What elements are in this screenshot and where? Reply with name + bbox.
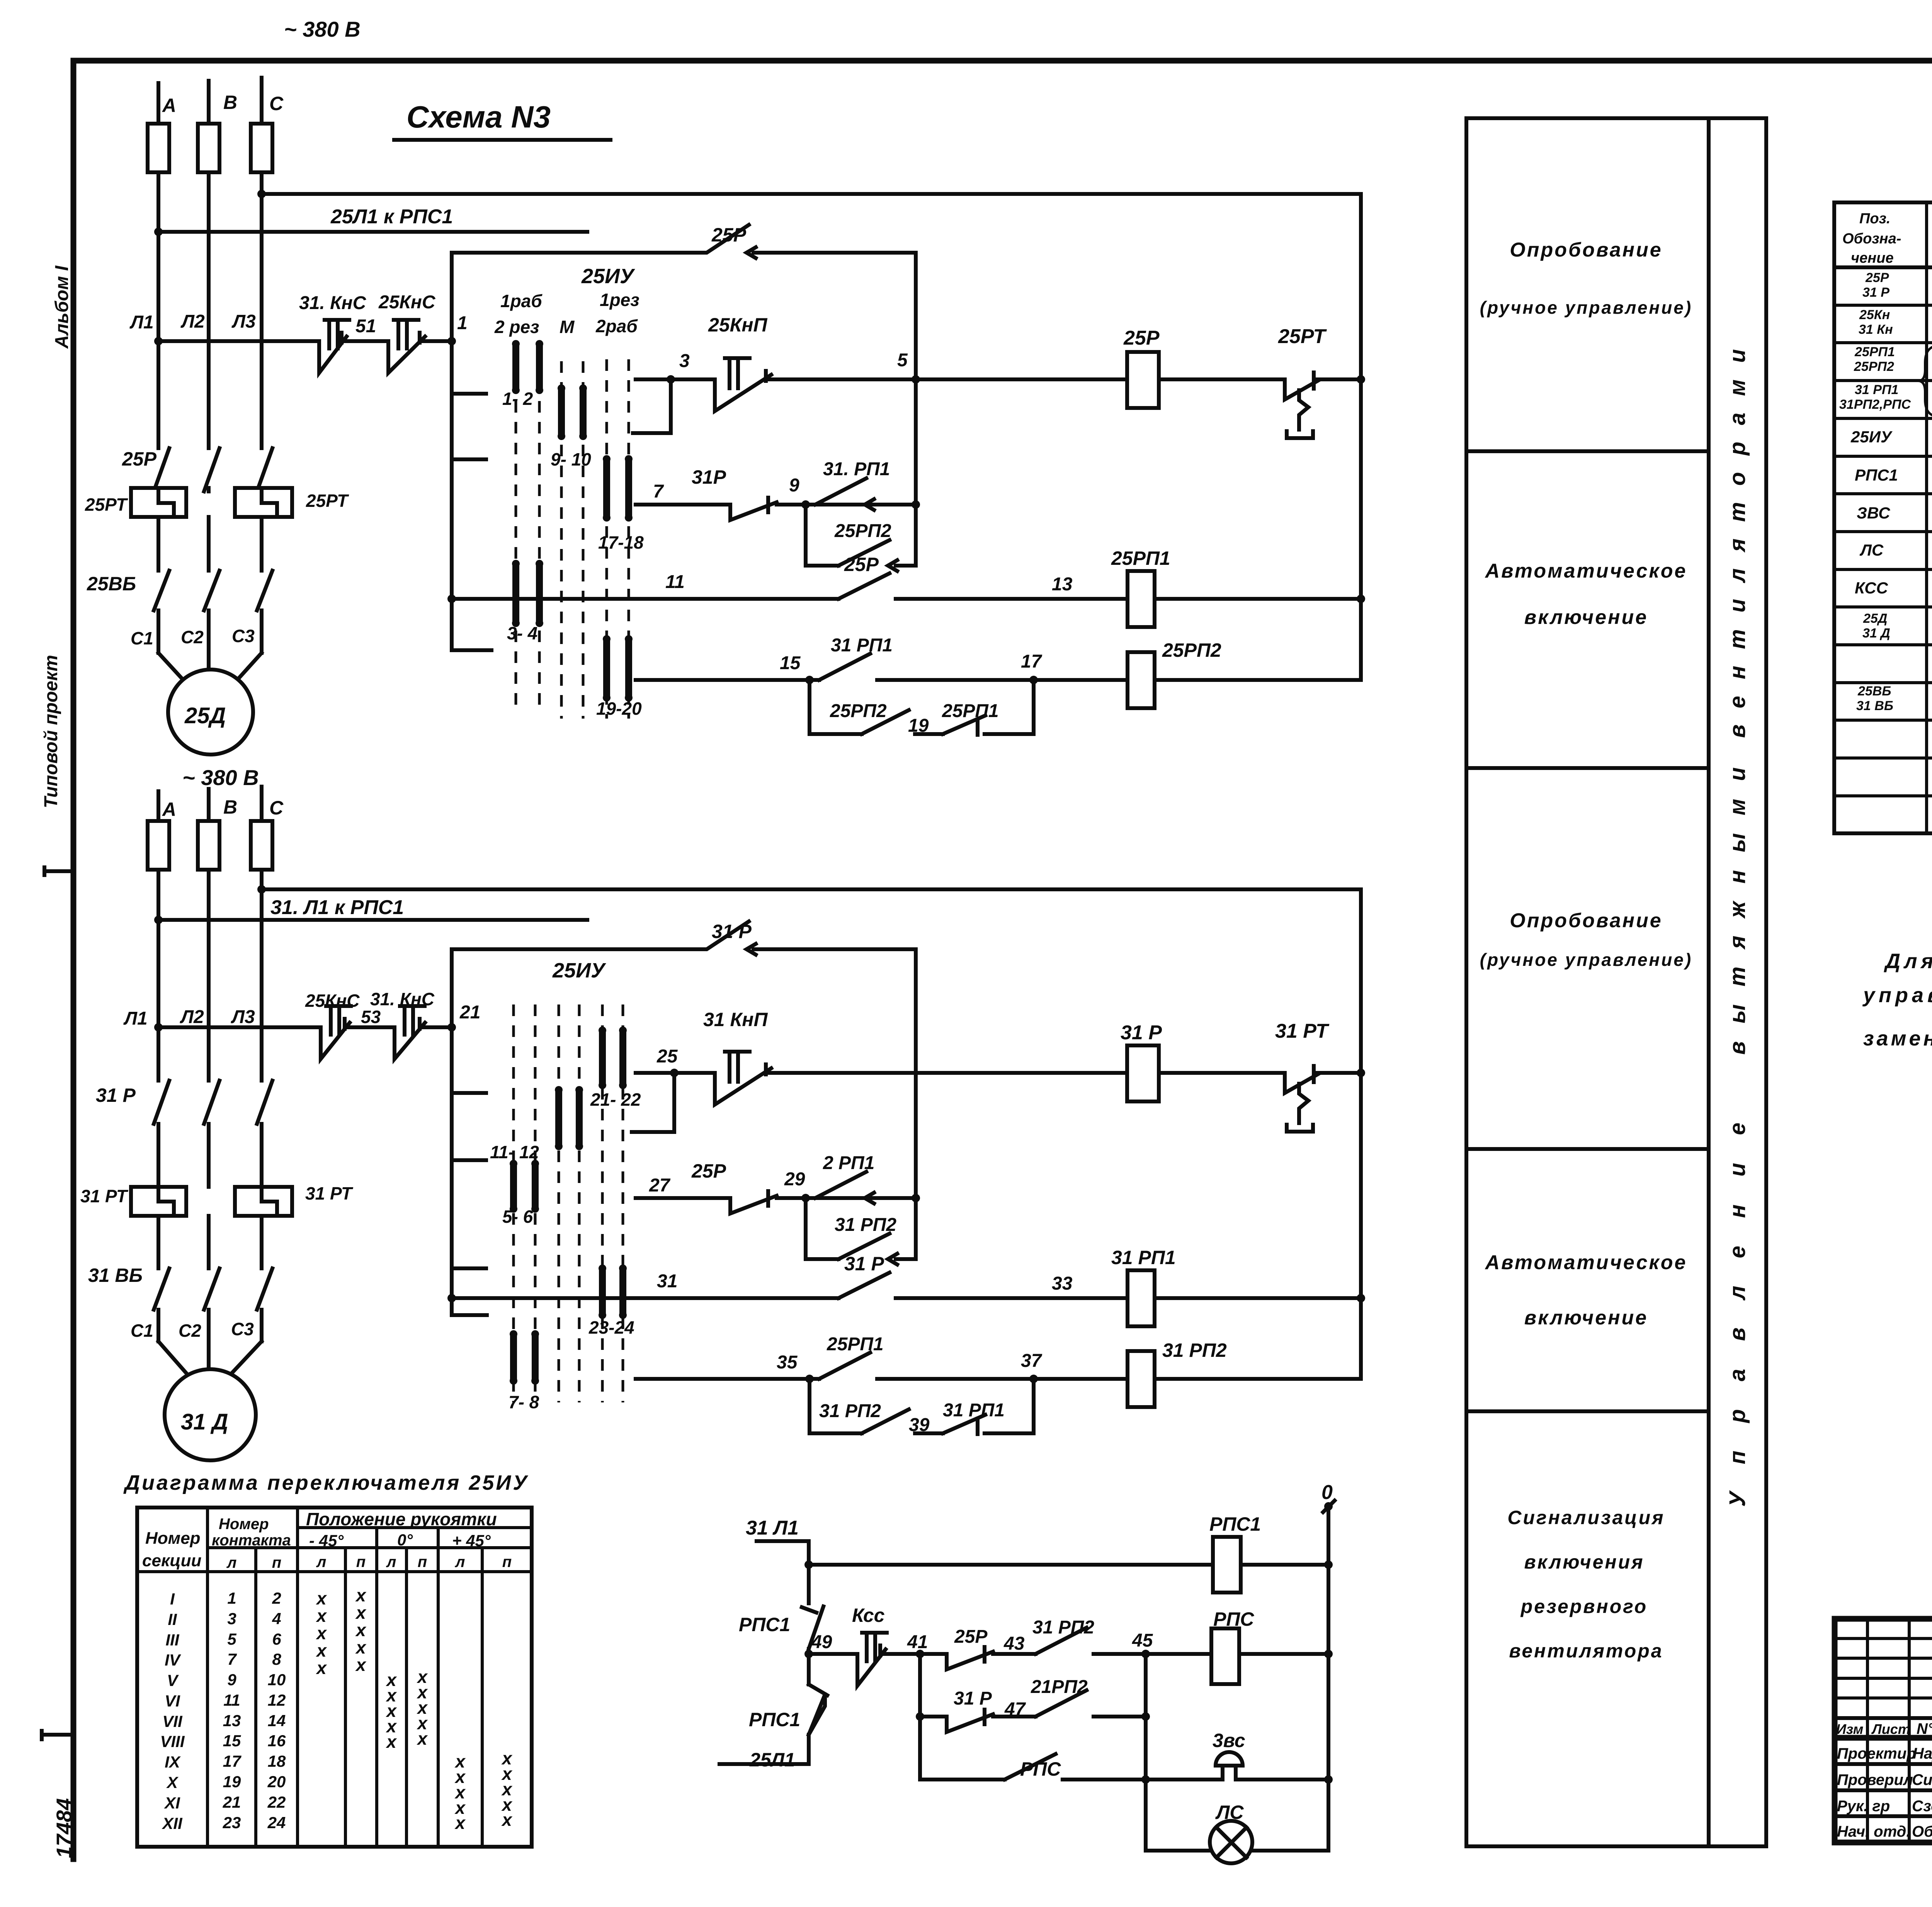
svg-text:25Л1: 25Л1 (749, 1749, 795, 1771)
svg-text:Обозна-: Обозна- (1842, 231, 1901, 247)
svg-text:Сидельникова: Сидельникова (1912, 1771, 1932, 1788)
svg-text:- 45°: - 45° (309, 1531, 344, 1550)
svg-text:VI: VI (165, 1692, 180, 1710)
svg-text:контакта: контакта (212, 1532, 291, 1549)
svg-text:25Р: 25Р (122, 448, 157, 470)
svg-text:22: 22 (267, 1793, 286, 1811)
svg-text:31 КнП: 31 КнП (703, 1009, 768, 1030)
svg-text:резервного: резервного (1520, 1596, 1648, 1617)
svg-text:x: x (315, 1658, 327, 1678)
svg-text:X: X (166, 1773, 179, 1791)
svg-text:Л2: Л2 (180, 1007, 204, 1027)
svg-text:3: 3 (227, 1610, 236, 1628)
svg-text:включение: включение (1524, 606, 1648, 629)
svg-text:17-18: 17-18 (598, 532, 644, 552)
svg-text:В: В (223, 796, 237, 818)
svg-text:6: 6 (272, 1630, 281, 1648)
svg-text:17484: 17484 (52, 1798, 76, 1858)
svg-text:включения: включения (1524, 1551, 1644, 1573)
svg-text:43: 43 (1003, 1633, 1025, 1654)
svg-text:21: 21 (223, 1793, 241, 1811)
svg-text:25РТ: 25РТ (85, 495, 128, 515)
svg-text:25Р: 25Р (691, 1160, 726, 1182)
svg-text:А: А (162, 799, 176, 820)
svg-text:Сигнализация: Сигнализация (1507, 1507, 1665, 1528)
svg-text:РПС1: РПС1 (1855, 466, 1898, 484)
svg-text:Л3: Л3 (231, 1007, 255, 1027)
svg-text:1: 1 (457, 313, 468, 333)
svg-text:x: x (385, 1732, 397, 1752)
svg-text:31 РП2: 31 РП2 (819, 1401, 881, 1421)
svg-text:I: I (170, 1590, 175, 1608)
svg-text:Автоматическое: Автоматическое (1485, 560, 1687, 582)
svg-text:Нач. отд.: Нач. отд. (1837, 1823, 1910, 1840)
svg-text:секции: секции (142, 1551, 202, 1570)
svg-text:24: 24 (267, 1814, 286, 1832)
svg-text:18: 18 (268, 1752, 286, 1770)
svg-text:9- 10: 9- 10 (551, 449, 591, 469)
svg-text:ЗВС: ЗВС (1857, 504, 1890, 522)
svg-text:23: 23 (223, 1814, 241, 1832)
svg-text:25Р: 25Р (844, 554, 879, 575)
svg-text:31 РП1: 31 РП1 (1111, 1247, 1176, 1268)
svg-text:Сздельникова: Сздельникова (1912, 1798, 1932, 1815)
svg-text:25Р: 25Р (1123, 327, 1160, 349)
svg-text:25РП2: 25РП2 (830, 701, 887, 721)
svg-text:0: 0 (1321, 1481, 1333, 1504)
svg-text:КСС: КСС (1855, 579, 1888, 597)
svg-text:Л2: Л2 (180, 311, 205, 332)
svg-text:Автоматическое: Автоматическое (1485, 1251, 1687, 1274)
svg-text:14: 14 (268, 1712, 286, 1730)
svg-text:31 РП2: 31 РП2 (835, 1215, 896, 1235)
svg-text:33: 33 (1052, 1273, 1073, 1294)
svg-text:4: 4 (272, 1610, 281, 1628)
svg-text:Наумова: Наумова (1913, 1745, 1932, 1762)
svg-text:31 Р: 31 Р (1862, 285, 1889, 300)
svg-text:25Р: 25Р (711, 224, 747, 246)
svg-text:1: 1 (227, 1589, 236, 1607)
svg-text:Проектир: Проектир (1837, 1745, 1916, 1762)
svg-text:19: 19 (223, 1773, 241, 1791)
svg-text:31 РП1: 31 РП1 (831, 635, 893, 656)
svg-text:С2: С2 (179, 1321, 201, 1341)
svg-text:ЛС: ЛС (1215, 1802, 1244, 1823)
svg-text:Положение рукоятки: Положение рукоятки (306, 1509, 497, 1529)
svg-text:Ксс: Ксс (852, 1604, 885, 1626)
svg-text:x: x (501, 1810, 513, 1830)
svg-text:31 ВБ: 31 ВБ (1856, 699, 1893, 713)
svg-text:31 РТ: 31 РТ (1275, 1020, 1330, 1042)
svg-text:31 РП2: 31 РП2 (1162, 1339, 1227, 1361)
svg-text:Изм: Изм (1836, 1721, 1863, 1737)
svg-text:25ВБ: 25ВБ (87, 573, 136, 595)
svg-text:Номер: Номер (219, 1516, 269, 1533)
svg-text:Поз.: Поз. (1859, 211, 1891, 227)
svg-text:31 ВБ: 31 ВБ (88, 1265, 143, 1286)
svg-text:1рез: 1рез (600, 290, 639, 310)
svg-text:11- 12: 11- 12 (490, 1142, 539, 1162)
svg-text:Л3: Л3 (231, 311, 256, 332)
svg-text:Рук. гр: Рук. гр (1837, 1798, 1890, 1815)
svg-text:31 Р: 31 Р (712, 921, 752, 942)
svg-text:31. Л1 к РПС1: 31. Л1 к РПС1 (270, 896, 404, 919)
svg-text:9: 9 (789, 475, 799, 496)
svg-text:31 Р: 31 Р (96, 1084, 136, 1106)
svg-text:9: 9 (227, 1671, 236, 1689)
svg-text:РПС: РПС (1020, 1758, 1061, 1780)
svg-text:31РП2,РПС: 31РП2,РПС (1839, 397, 1911, 412)
svg-text:17: 17 (223, 1752, 241, 1770)
svg-text:(ручное управление): (ручное управление) (1480, 297, 1692, 318)
svg-text:2раб: 2раб (595, 316, 638, 336)
svg-text:л: л (316, 1553, 327, 1570)
svg-text:ЛС: ЛС (1859, 541, 1884, 559)
svg-text:31 РТ: 31 РТ (80, 1186, 129, 1206)
svg-text:п: п (502, 1553, 512, 1570)
svg-text:25РТ: 25РТ (1278, 325, 1327, 348)
svg-text:Управление: Управление (1725, 1095, 1750, 1507)
svg-text:А: А (162, 95, 176, 116)
svg-text:Альбом I: Альбом I (52, 265, 72, 349)
svg-text:3вс: 3вс (1213, 1730, 1245, 1751)
svg-text:31. КнС: 31. КнС (370, 989, 435, 1009)
svg-text:7: 7 (227, 1650, 237, 1668)
svg-text:31 Л1: 31 Л1 (746, 1517, 799, 1539)
svg-text:41: 41 (907, 1632, 928, 1652)
svg-text:21РП2: 21РП2 (1031, 1677, 1088, 1697)
svg-text:31 Д: 31 Д (181, 1409, 228, 1434)
svg-text:25КнП: 25КнП (708, 314, 768, 336)
svg-text:23-24: 23-24 (588, 1317, 634, 1338)
svg-text:25Л1 к РПС1: 25Л1 к РПС1 (330, 206, 453, 228)
svg-text:37: 37 (1021, 1351, 1043, 1371)
svg-text:25РП2: 25РП2 (1162, 639, 1221, 661)
svg-text:заменой индексов 25 на 14: заменой индексов 25 на 14 ; 31 на 35. (1863, 1027, 1932, 1050)
svg-text:21: 21 (459, 1002, 480, 1023)
svg-text:С2: С2 (181, 627, 204, 647)
svg-text:л: л (386, 1553, 396, 1570)
svg-text:Лист: Лист (1871, 1721, 1910, 1737)
svg-text:IV: IV (165, 1651, 181, 1669)
svg-text:С1: С1 (131, 628, 153, 648)
svg-text:2 рез: 2 рез (494, 317, 539, 337)
svg-text:Обермейстер: Обермейстер (1912, 1823, 1932, 1840)
svg-text:13: 13 (1052, 574, 1073, 595)
svg-text:+ 45°: + 45° (452, 1531, 491, 1550)
svg-text:5: 5 (227, 1630, 236, 1648)
svg-text:25ИУ: 25ИУ (1850, 428, 1893, 446)
svg-text:XI: XI (164, 1794, 180, 1812)
svg-text:Диаграмма переключателя 25ИУ: Диаграмма переключателя 25ИУ (123, 1471, 529, 1494)
svg-text:15: 15 (223, 1732, 241, 1750)
svg-text:25РП1: 25РП1 (1854, 345, 1895, 359)
svg-text:31 Р: 31 Р (844, 1253, 884, 1275)
svg-text:1- 2: 1- 2 (502, 389, 533, 409)
svg-text:15: 15 (780, 653, 801, 673)
svg-text:25РТ: 25РТ (306, 491, 349, 511)
svg-text:25РП1: 25РП1 (827, 1334, 884, 1355)
svg-text:Проверил: Проверил (1837, 1771, 1913, 1788)
svg-text:5: 5 (897, 350, 908, 371)
svg-text:13: 13 (223, 1712, 241, 1730)
svg-text:п: п (418, 1553, 427, 1570)
svg-text:2 РП1: 2 РП1 (823, 1153, 874, 1173)
svg-text:РПС1: РПС1 (1209, 1513, 1261, 1535)
svg-text:7- 8: 7- 8 (509, 1392, 539, 1412)
svg-text:31 Р: 31 Р (954, 1688, 992, 1709)
svg-text:20: 20 (267, 1773, 286, 1791)
svg-text:~ 380 В: ~ 380 В (182, 765, 259, 790)
svg-text:x: x (454, 1813, 466, 1833)
svg-text:С3: С3 (232, 626, 255, 646)
svg-text:8: 8 (272, 1650, 281, 1668)
svg-text:С1: С1 (131, 1321, 153, 1341)
svg-text:x: x (416, 1729, 428, 1749)
svg-text:31 Р: 31 Р (1121, 1021, 1162, 1044)
svg-text:16: 16 (268, 1732, 286, 1750)
svg-text:51: 51 (355, 316, 376, 337)
svg-text:31 РТ: 31 РТ (305, 1183, 354, 1203)
svg-text:1раб: 1раб (500, 291, 543, 311)
svg-text:М: М (560, 317, 575, 337)
svg-text:25Д: 25Д (1863, 611, 1887, 626)
svg-text:31 Д: 31 Д (1862, 626, 1890, 641)
svg-text:Опробование: Опробование (1510, 909, 1662, 932)
svg-text:25РП2: 25РП2 (1854, 359, 1894, 374)
svg-text:31Р: 31Р (692, 466, 726, 488)
svg-text:31. КнС: 31. КнС (299, 293, 367, 313)
svg-text:25ВБ: 25ВБ (1857, 684, 1891, 699)
svg-text:35: 35 (777, 1352, 798, 1373)
svg-text:чение: чение (1851, 250, 1894, 266)
svg-text:включение: включение (1524, 1307, 1648, 1329)
svg-text:25РП2: 25РП2 (834, 521, 891, 541)
svg-text:вентиляторами: вентиляторами (1725, 333, 1750, 738)
svg-text:л: л (455, 1553, 465, 1570)
svg-text:25Р: 25Р (954, 1627, 988, 1647)
svg-text:45: 45 (1132, 1630, 1153, 1651)
svg-text:25Р: 25Р (1865, 270, 1889, 285)
svg-text:Л1: Л1 (123, 1008, 148, 1029)
svg-text:XII: XII (162, 1814, 183, 1832)
svg-text:V: V (167, 1671, 179, 1689)
svg-text:п: п (356, 1553, 366, 1570)
svg-text:С: С (269, 797, 284, 819)
svg-text:п: п (272, 1554, 281, 1571)
svg-text:11: 11 (223, 1691, 240, 1709)
svg-text:11: 11 (665, 572, 685, 592)
svg-text:(ручное управление): (ручное управление) (1480, 950, 1692, 970)
svg-text:25КнС: 25КнС (305, 991, 360, 1011)
svg-text:II: II (168, 1610, 177, 1628)
svg-text:21- 22: 21- 22 (590, 1089, 641, 1110)
svg-text:25ИУ: 25ИУ (581, 265, 635, 288)
svg-text:31 Кн: 31 Кн (1859, 322, 1893, 337)
svg-text:Номер: Номер (145, 1529, 201, 1548)
svg-text:10: 10 (268, 1671, 286, 1689)
svg-text:РПС1: РПС1 (749, 1709, 800, 1730)
svg-text:25КнС: 25КнС (378, 292, 436, 313)
svg-text:VII: VII (162, 1712, 183, 1730)
svg-text:III: III (165, 1631, 179, 1649)
svg-text:3: 3 (679, 351, 690, 371)
svg-text:вытяжными: вытяжными (1725, 750, 1750, 1055)
svg-text:25: 25 (656, 1046, 678, 1067)
svg-text:29: 29 (784, 1169, 805, 1190)
svg-text:7: 7 (653, 481, 664, 502)
svg-text:x: x (355, 1655, 367, 1675)
svg-text:25Кн: 25Кн (1859, 308, 1890, 322)
svg-text:вентилятора: вентилятора (1509, 1640, 1663, 1662)
svg-text:3- 4: 3- 4 (507, 623, 537, 643)
svg-text:Л1: Л1 (129, 312, 154, 333)
svg-text:управления аналогичны с соо: управления аналогичны с соответствующей (1862, 984, 1932, 1007)
svg-text:49: 49 (811, 1632, 832, 1652)
svg-text:27: 27 (649, 1175, 671, 1196)
svg-text:31. РП1: 31. РП1 (823, 459, 890, 479)
svg-text:5- 6: 5- 6 (502, 1207, 533, 1227)
svg-text:25РП1: 25РП1 (942, 701, 999, 721)
svg-text:53: 53 (361, 1007, 381, 1027)
svg-text:Опробование: Опробование (1510, 239, 1662, 261)
svg-text:17: 17 (1021, 651, 1043, 672)
svg-text:19: 19 (908, 716, 929, 736)
svg-text:РПС1: РПС1 (739, 1614, 790, 1635)
svg-text:IX: IX (165, 1753, 181, 1771)
svg-text:31 РП2: 31 РП2 (1032, 1617, 1094, 1638)
svg-text:25ИУ: 25ИУ (552, 959, 606, 982)
svg-text:25РП1: 25РП1 (1111, 547, 1170, 569)
svg-text:N°докум.: N°докум. (1917, 1720, 1932, 1737)
svg-text:VIII: VIII (160, 1732, 185, 1751)
svg-text:В: В (223, 92, 237, 113)
svg-text:Схема N3: Схема N3 (406, 100, 551, 134)
svg-text:С: С (269, 93, 284, 114)
svg-text:31 РП1: 31 РП1 (1855, 382, 1898, 397)
svg-text:39: 39 (909, 1415, 930, 1435)
svg-text:19-20: 19-20 (596, 699, 642, 719)
svg-text:~ 380 В: ~ 380 В (284, 17, 361, 41)
svg-text:2: 2 (272, 1589, 281, 1607)
svg-text:Типовой проект: Типовой проект (41, 655, 61, 808)
svg-text:Для вытяжных вентиляторов: Для вытяжных вентиляторов В3 схемы (1884, 950, 1932, 973)
svg-text:47: 47 (1004, 1699, 1026, 1720)
svg-text:31: 31 (657, 1271, 677, 1292)
svg-text:РПС: РПС (1213, 1608, 1254, 1630)
svg-text:л: л (226, 1554, 237, 1571)
svg-text:31 РП1: 31 РП1 (943, 1400, 1005, 1421)
svg-text:С3: С3 (231, 1319, 254, 1339)
svg-text:12: 12 (268, 1691, 286, 1709)
svg-text:25Д: 25Д (184, 703, 226, 728)
svg-text:0°: 0° (397, 1531, 413, 1549)
